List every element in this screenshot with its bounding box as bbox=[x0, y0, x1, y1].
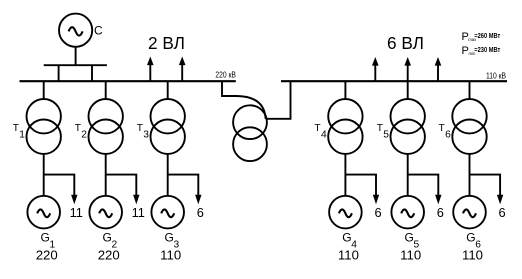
wire bus to T3 bbox=[167, 81, 169, 99]
wire tie transformer to 110 bus bbox=[266, 81, 291, 119]
arrow head load G2 bbox=[133, 195, 139, 204]
auxiliary load branch of G6 bbox=[470, 175, 501, 196]
svg-text:110: 110 bbox=[400, 247, 421, 262]
svg-text:6 ВЛ: 6 ВЛ bbox=[387, 33, 424, 53]
wire bus to T6 bbox=[469, 81, 471, 99]
wire bus to T4 bbox=[344, 81, 346, 99]
svg-text:Pmin=230 МВт: Pmin=230 МВт bbox=[462, 45, 501, 57]
transformer T1 bbox=[27, 99, 61, 154]
generator C bbox=[59, 14, 92, 47]
generator G6 bbox=[453, 196, 486, 229]
arrow line 3 (6 ВЛ) bbox=[437, 64, 439, 81]
auxiliary load branch of G4 bbox=[345, 175, 376, 196]
svg-text:6: 6 bbox=[499, 205, 506, 220]
wire T5 to G5 bbox=[407, 154, 409, 196]
auxiliary load branch of G5 bbox=[408, 175, 439, 196]
svg-text:110: 110 bbox=[462, 247, 483, 262]
arrow head load G3 bbox=[195, 195, 201, 204]
transformer T6 bbox=[452, 99, 486, 154]
arrow line 1 (2 ВЛ) bbox=[149, 64, 151, 82]
arrow head load G1 bbox=[71, 195, 77, 204]
wire T4 to G4 bbox=[344, 154, 346, 196]
generator G3 bbox=[151, 196, 184, 229]
wire T1 to G1 bbox=[43, 154, 45, 196]
bus 220 kV bbox=[20, 80, 236, 82]
wire link bar right leg bbox=[91, 65, 93, 81]
auxiliary load branch of G1 bbox=[44, 175, 75, 196]
transformer T5 bbox=[391, 99, 425, 154]
svg-text:6: 6 bbox=[197, 205, 204, 220]
arrow line 2 (6 ВЛ) bbox=[407, 64, 409, 81]
arrow line 2 (2 ВЛ) bbox=[181, 64, 183, 82]
generator G5 bbox=[391, 196, 424, 229]
wire bus to T5 bbox=[407, 81, 409, 99]
tie transformer AT bbox=[233, 105, 267, 161]
svg-text:220 кВ: 220 кВ bbox=[215, 70, 236, 80]
wire bus to T2 bbox=[105, 81, 107, 99]
wire T3 to G3 bbox=[167, 154, 169, 196]
svg-text:Т4: Т4 bbox=[314, 123, 327, 141]
svg-text:Т1: Т1 bbox=[13, 123, 26, 141]
wire T6 to G6 bbox=[469, 154, 471, 196]
link bar bbox=[44, 64, 107, 66]
svg-text:110 кВ: 110 кВ bbox=[486, 70, 506, 80]
svg-text:Т6: Т6 bbox=[439, 123, 452, 141]
svg-text:C: C bbox=[94, 24, 103, 38]
svg-text:Т5: Т5 bbox=[377, 123, 390, 141]
bus 110 kV bbox=[281, 80, 507, 82]
svg-text:Т2: Т2 bbox=[75, 123, 88, 141]
arrow head load G4 bbox=[373, 195, 379, 204]
transformer T2 bbox=[89, 99, 123, 154]
wire link bar left leg bbox=[58, 65, 60, 81]
generator G4 bbox=[329, 196, 362, 229]
arrow head load G5 bbox=[435, 195, 441, 204]
arrow head load G6 bbox=[497, 195, 503, 204]
svg-text:110: 110 bbox=[338, 247, 359, 262]
svg-text:220: 220 bbox=[98, 247, 120, 262]
auxiliary load branch of G2 bbox=[106, 175, 137, 196]
arrow line 1 (6 ВЛ) bbox=[374, 64, 376, 81]
svg-text:220: 220 bbox=[36, 247, 58, 262]
wire C to link bar bbox=[75, 47, 77, 65]
wire T2 to G2 bbox=[105, 154, 107, 196]
transformer T3 bbox=[151, 99, 185, 154]
svg-text:6: 6 bbox=[374, 205, 381, 220]
svg-text:Т3: Т3 bbox=[137, 123, 150, 141]
svg-text:110: 110 bbox=[160, 247, 181, 262]
svg-text:11: 11 bbox=[70, 205, 83, 220]
svg-text:2 ВЛ: 2 ВЛ bbox=[148, 33, 185, 53]
svg-text:11: 11 bbox=[132, 205, 145, 220]
wire bus to T1 bbox=[43, 81, 45, 99]
auxiliary load branch of G3 bbox=[168, 175, 199, 196]
svg-text:Pmax=260 МВт: Pmax=260 МВт bbox=[462, 31, 501, 43]
generator G1 bbox=[27, 196, 60, 229]
transformer T4 bbox=[328, 99, 362, 154]
generator G2 bbox=[89, 196, 122, 229]
wire 220 bus to tie transformer (curved) bbox=[222, 81, 266, 119]
svg-text:6: 6 bbox=[437, 205, 444, 220]
